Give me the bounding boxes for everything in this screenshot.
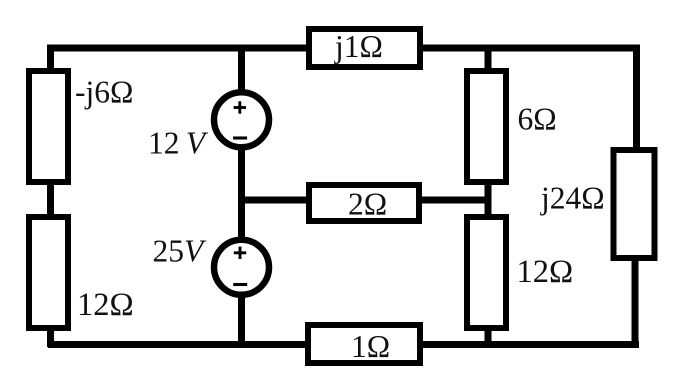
wire 2 ohm feed left	[238, 197, 309, 204]
svg-text:25V: 25V	[153, 234, 208, 269]
svg-text:1Ω: 1Ω	[351, 329, 390, 364]
wire left stub top	[47, 45, 54, 71]
wire right-mid stub middle	[485, 182, 492, 217]
svg-text:12 V: 12 V	[148, 126, 209, 161]
wire between sources	[238, 146, 245, 242]
svg-text:12Ω: 12Ω	[517, 254, 574, 290]
wire far-right vertical bottom	[632, 258, 639, 348]
wire left stub middle	[47, 182, 54, 217]
svg-text:12Ω: 12Ω	[77, 287, 134, 323]
source 12V circle	[214, 92, 269, 147]
minus sign of 25V source	[233, 283, 247, 286]
svg-text:-j6Ω: -j6Ω	[75, 75, 133, 110]
wire bottom horizontal	[48, 341, 639, 348]
wire far-right vertical top	[633, 45, 640, 150]
wire top horizontal	[47, 45, 640, 52]
wire left stub bottom	[47, 328, 54, 347]
svg-text:j24Ω: j24Ω	[540, 181, 605, 216]
wire middle column top	[238, 45, 245, 95]
resistor 12 ohm right box	[467, 217, 506, 328]
resistor 12 ohm left box	[29, 217, 68, 328]
source 25V circle	[214, 240, 269, 295]
svg-text:6Ω: 6Ω	[518, 102, 557, 137]
minus sign of 12V source	[233, 136, 247, 139]
resistor -j6 ohm box	[29, 71, 68, 182]
plus sign of 25V source	[234, 247, 246, 259]
resistor 2 ohm box	[309, 185, 419, 221]
resistor j1 ohm box	[309, 29, 420, 67]
plus sign of 12V source	[234, 101, 246, 113]
resistor j24 ohm box	[614, 150, 655, 258]
wire middle column bottom	[238, 293, 245, 347]
wire right-mid stub top	[485, 45, 492, 71]
resistor 1 ohm box	[308, 325, 420, 363]
svg-text:2Ω: 2Ω	[348, 187, 387, 222]
svg-text:j1Ω: j1Ω	[334, 29, 383, 64]
resistor 6 ohm box	[467, 71, 506, 182]
wire 2 ohm feed right	[419, 197, 491, 204]
wire right-mid stub bottom	[485, 328, 492, 347]
